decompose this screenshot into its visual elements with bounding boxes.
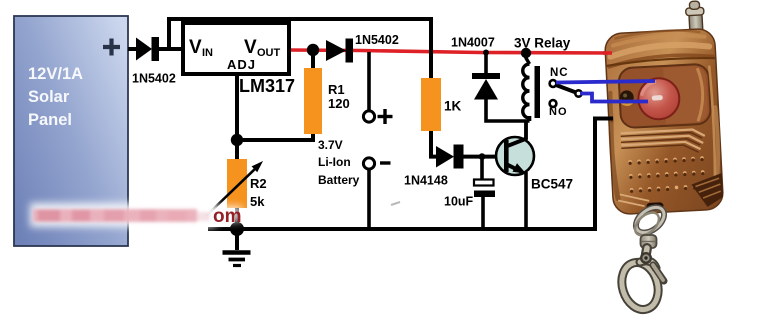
- body: [604, 28, 723, 215]
- seam: [606, 57, 716, 66]
- red button: [637, 77, 680, 120]
- wood grain streaks: [606, 28, 721, 198]
- ground node: [230, 222, 244, 236]
- svg-text:om: om: [213, 206, 242, 227]
- svg-text:5k: 5k: [250, 194, 265, 209]
- resistor R3 1K: [421, 78, 462, 157]
- blue wire NC to remote: [556, 81, 655, 83]
- black wire stub into remote: [604, 117, 613, 121]
- svg-text:NO: NO: [549, 106, 568, 118]
- battery - terminal: [363, 158, 390, 229]
- svg-text:LM317: LM317: [239, 76, 295, 96]
- plus sign on panel: [103, 39, 120, 56]
- watermark pink band: [33, 209, 210, 222]
- svg-text:Solar: Solar: [28, 88, 70, 106]
- chevron ridges: [621, 129, 706, 153]
- wire 1N4007 bottom to relay bottom and collector: [486, 98, 530, 139]
- svg-text:ADJ: ADJ: [227, 57, 256, 72]
- dot grid: [628, 156, 705, 193]
- bottom-right dark corner: [691, 173, 724, 208]
- svg-text:12V/1A: 12V/1A: [28, 65, 83, 83]
- node base/cap junction: [479, 153, 486, 160]
- pot R2 5k: [206, 140, 267, 229]
- svg-text:IN: IN: [202, 47, 213, 59]
- svg-text:3.7V: 3.7V: [318, 138, 343, 152]
- svg-text:3V Relay: 3V Relay: [514, 36, 571, 51]
- wire panel to D1: [128, 47, 137, 51]
- red output wire VOUT to remote: [289, 50, 611, 53]
- bottom ground rail: [208, 227, 597, 231]
- node 1N4007 top: [483, 50, 489, 56]
- blue wire common to remote button: [580, 94, 648, 102]
- transistor Q1 BC547: [496, 121, 573, 229]
- top bypass rail wire: [169, 19, 431, 78]
- solar panel: [14, 16, 128, 246]
- swivel barrel: [641, 235, 657, 248]
- LED hole: [619, 90, 634, 105]
- diode D3 1N4007: [451, 36, 500, 100]
- wire D1 to LM317 VIN: [159, 47, 184, 51]
- relay contacts: [549, 67, 582, 118]
- diode D2 1N5402: [326, 33, 399, 63]
- diode D4 1N4148: [404, 145, 502, 188]
- right bevel highlight: [708, 65, 717, 195]
- diode D1 1N5402: [132, 37, 176, 86]
- node on VOUT line: [307, 44, 319, 56]
- svg-text:1N5402: 1N5402: [132, 72, 176, 86]
- svg-text:R1: R1: [328, 82, 345, 97]
- svg-text:Panel: Panel: [28, 111, 72, 129]
- svg-text:1K: 1K: [444, 99, 462, 114]
- wire rail up to remote: [595, 119, 612, 230]
- top stud: [685, 1, 705, 32]
- svg-text:1N5402: 1N5402: [355, 33, 399, 47]
- svg-text:1N4007: 1N4007: [451, 36, 495, 50]
- red wire end over remote: [603, 51, 612, 55]
- ground symbol: [223, 229, 251, 266]
- svg-text:10uF: 10uF: [444, 195, 474, 209]
- svg-text:V: V: [244, 37, 257, 58]
- regulator U1 LM317: [183, 23, 295, 96]
- resistor R1 120: [243, 50, 350, 140]
- battery label: [318, 138, 360, 187]
- svg-text:NC: NC: [550, 67, 569, 79]
- svg-text:BC547: BC547: [531, 177, 573, 192]
- svg-text:Li-Ion: Li-Ion: [318, 155, 351, 169]
- node ADJ junction: [231, 134, 243, 146]
- svg-text:1N4148: 1N4148: [404, 174, 448, 188]
- gray artifact dash: [391, 202, 400, 205]
- watermark fog: [30, 203, 216, 227]
- battery + terminal: [363, 52, 392, 124]
- wire ADJ pin down: [235, 74, 239, 140]
- svg-text:OUT: OUT: [257, 47, 281, 59]
- lobster clasp: [616, 248, 664, 314]
- svg-text:R2: R2: [250, 176, 267, 191]
- capacitor C1 10uF: [444, 156, 495, 229]
- key slot: [646, 202, 663, 211]
- keychain ring: [631, 202, 669, 239]
- button panel: [618, 64, 711, 129]
- svg-text:Battery: Battery: [318, 173, 360, 187]
- svg-text:120: 120: [328, 96, 350, 111]
- bottom-left ridges: [618, 193, 650, 208]
- remote control transmitter: [603, 0, 724, 214]
- svg-text:V: V: [189, 37, 202, 58]
- relay K1 coil: [514, 36, 571, 119]
